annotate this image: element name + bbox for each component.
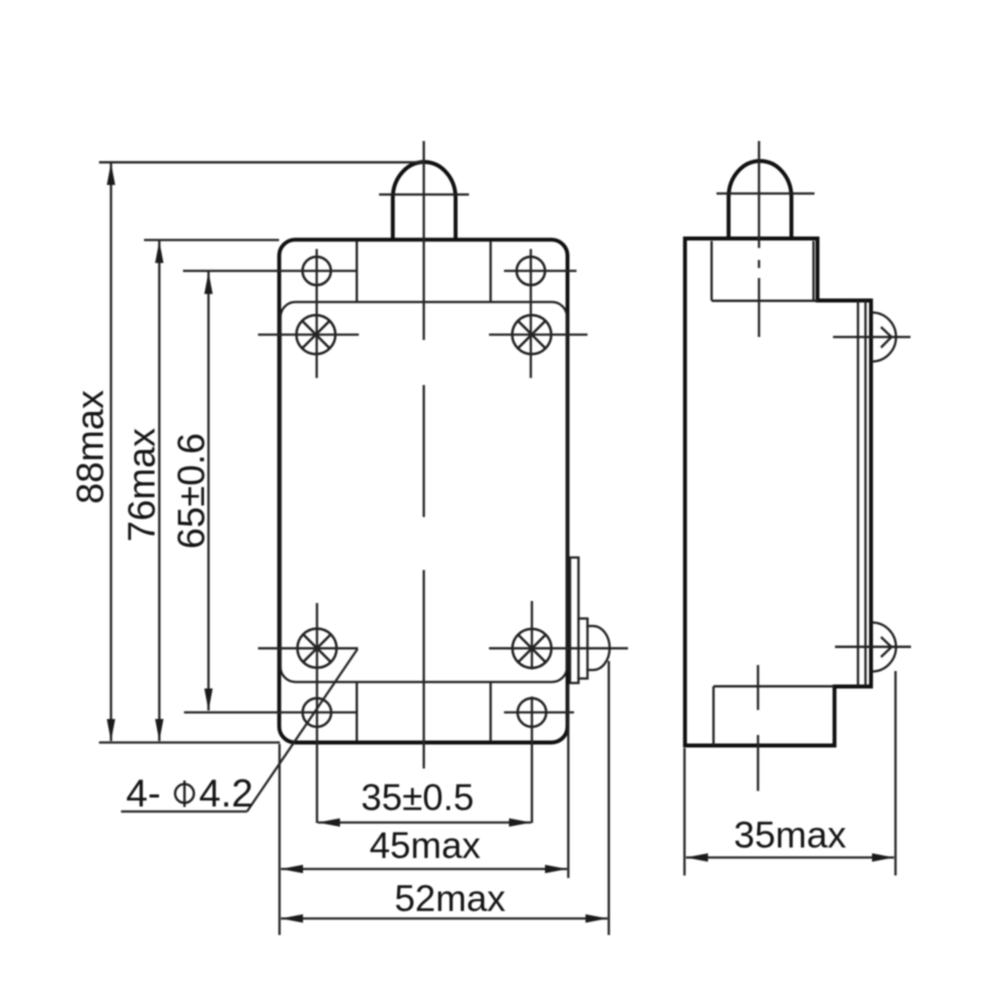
svg-text:4-: 4- [126,773,161,816]
svg-text:76max: 76max [122,428,164,542]
svg-text:35max: 35max [734,814,847,856]
svg-text:52max: 52max [394,878,506,919]
svg-text:88max: 88max [70,390,112,504]
svg-text:65±0.6: 65±0.6 [171,433,213,549]
svg-text:35±0.5: 35±0.5 [361,777,474,818]
svg-text:45max: 45max [369,825,481,866]
svg-text:4.2: 4.2 [199,773,253,816]
